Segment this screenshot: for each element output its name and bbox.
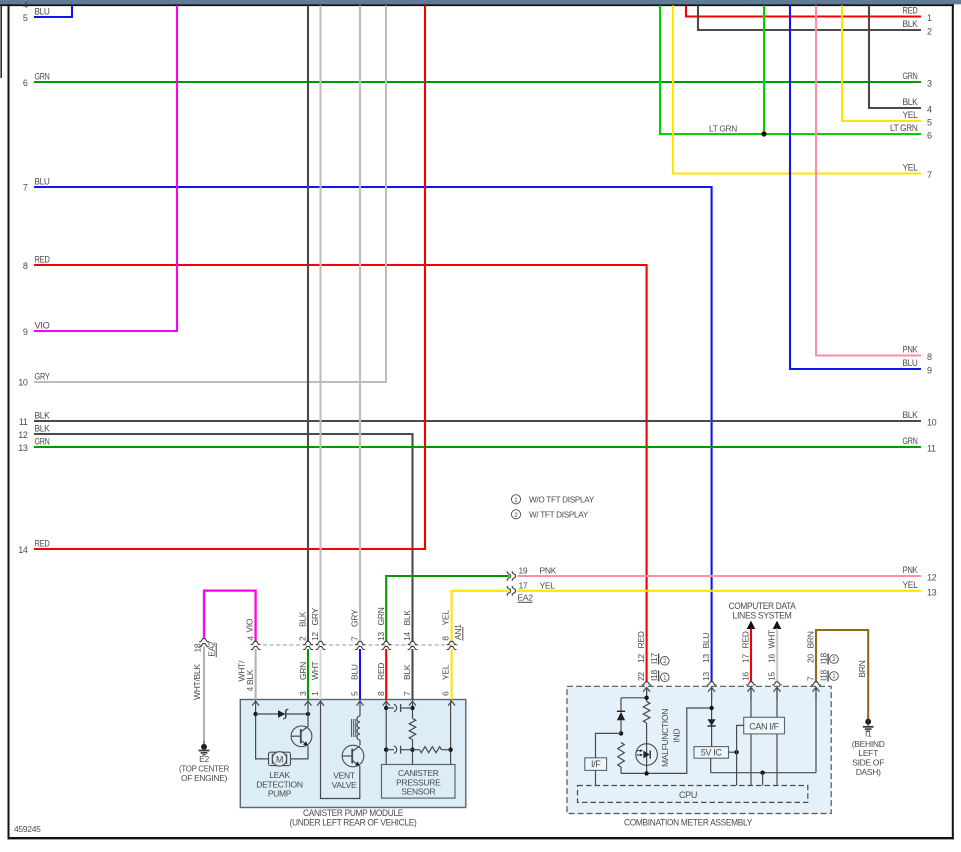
junction MIL top <box>644 696 648 700</box>
svg-text:IND: IND <box>672 729 682 743</box>
resistor meter left <box>618 743 625 768</box>
svg-text:GRN: GRN <box>35 72 50 82</box>
meter entry connector at x=751 <box>746 682 756 685</box>
wire YEL below AN1-8 to module pin 6 <box>451 649 453 700</box>
svg-text:RED: RED <box>376 663 386 680</box>
module pin 3 arrow <box>305 701 312 705</box>
connector symbol at x=360 <box>355 641 365 649</box>
svg-text:GRY: GRY <box>35 372 50 382</box>
wire GRY vertical to connector 12 <box>319 6 321 642</box>
svg-text:BLK: BLK <box>903 410 918 420</box>
wire BLK 12 to connector 14 <box>34 434 413 642</box>
svg-text:PUMP: PUMP <box>268 788 292 798</box>
wire RED 1 right <box>686 6 921 17</box>
legend w/o TFT <box>511 495 520 504</box>
svg-text:BLK: BLK <box>35 424 50 434</box>
svg-text:BLU: BLU <box>35 7 50 17</box>
svg-text:GRN: GRN <box>903 436 918 446</box>
svg-text:WHT/BLK: WHT/BLK <box>192 664 202 700</box>
combination meter assembly box <box>567 686 831 813</box>
svg-text:6: 6 <box>927 131 932 141</box>
svg-text:RED: RED <box>903 6 919 16</box>
svg-text:14: 14 <box>18 545 28 555</box>
svg-text:1: 1 <box>310 691 320 696</box>
svg-text:I1: I1 <box>865 729 872 739</box>
pressure sensor network <box>385 700 387 765</box>
connector symbol at x=320.5 <box>316 641 326 649</box>
wire GRN to EA2 pin 19 <box>386 576 509 642</box>
svg-text:3: 3 <box>927 79 932 89</box>
module pin 5 arrow <box>357 701 364 705</box>
svg-text:LT GRN: LT GRN <box>890 123 918 133</box>
svg-text:BLK: BLK <box>402 610 412 626</box>
svg-text:17: 17 <box>519 580 528 590</box>
bottom border line <box>8 837 954 839</box>
svg-text:VIO: VIO <box>35 321 50 331</box>
meter bottom rail <box>621 708 712 773</box>
wire VIO 9 <box>34 6 177 332</box>
module pin 8 arrow <box>383 701 390 705</box>
svg-text:DASH): DASH) <box>856 767 881 777</box>
wire YEL 13 right <box>518 590 922 592</box>
meter entry connector at x=646.6 <box>642 682 652 685</box>
wire LT GRN 6 right <box>660 6 921 135</box>
svg-text:BRN: BRN <box>857 660 867 677</box>
svg-text:BLK: BLK <box>402 664 412 680</box>
wire WHT below conn 12 to module pin 1 <box>319 649 321 700</box>
svg-text:W/O TFT DISPLAY: W/O TFT DISPLAY <box>529 495 595 505</box>
wire BLU below conn 7 to module pin 5 <box>359 649 361 700</box>
svg-text:8: 8 <box>376 691 386 696</box>
wire YEL 7 right <box>673 6 921 174</box>
svg-text:BLK: BLK <box>903 19 918 29</box>
header bar <box>0 0 961 4</box>
zener diode leak pump <box>256 713 278 715</box>
svg-text:BLK: BLK <box>245 669 255 685</box>
svg-text:BLK: BLK <box>35 411 50 421</box>
meter entry connector at x=777 <box>772 682 782 685</box>
svg-text:8: 8 <box>23 261 28 271</box>
CAN I/F legs <box>750 688 752 717</box>
svg-text:BLU: BLU <box>35 177 50 187</box>
svg-text:I18: I18 <box>819 653 829 664</box>
resistor MIL <box>643 702 650 724</box>
svg-text:LEAK: LEAK <box>269 770 290 780</box>
svg-text:1: 1 <box>927 13 932 23</box>
wire PNK 12 right <box>518 575 922 577</box>
svg-text:12: 12 <box>636 654 646 663</box>
wire YEL 5 right <box>842 6 921 122</box>
wire BRN to I1 ground <box>816 630 868 719</box>
svg-text:PNK: PNK <box>903 565 918 575</box>
connector EA2 pin 19 <box>507 571 515 581</box>
module internal: pin4 rail <box>256 700 269 759</box>
svg-text:4: 4 <box>927 105 932 115</box>
wire BLK vertical to connector 2 <box>307 6 309 642</box>
resistor sensor horizontal <box>413 749 420 751</box>
svg-text:1: 1 <box>514 497 518 504</box>
svg-text:GRY: GRY <box>310 608 320 626</box>
svg-text:RED: RED <box>636 631 646 648</box>
svg-text:YEL: YEL <box>540 580 556 590</box>
svg-text:COMBINATION METER ASSEMBLY: COMBINATION METER ASSEMBLY <box>624 817 753 828</box>
svg-text:SIDE OF: SIDE OF <box>852 758 884 768</box>
svg-text:8: 8 <box>441 636 451 641</box>
meter entry connector at x=816 <box>811 682 821 685</box>
capacitor C1 sensor <box>386 707 394 709</box>
svg-text:I17: I17 <box>649 653 659 664</box>
svg-text:12: 12 <box>310 632 320 641</box>
svg-text:6: 6 <box>441 691 451 696</box>
vent valve loop wire <box>321 700 360 799</box>
svg-text:16: 16 <box>767 654 777 663</box>
svg-text:15: 15 <box>767 672 777 681</box>
svg-text:YEL: YEL <box>903 110 918 120</box>
svg-text:1: 1 <box>663 675 667 682</box>
ground E2 dot <box>201 744 207 750</box>
svg-text:5: 5 <box>350 691 360 696</box>
svg-text:GRN: GRN <box>903 71 918 81</box>
svg-text:7: 7 <box>350 636 360 641</box>
svg-text:RED: RED <box>35 255 51 265</box>
svg-text:(TOP CENTER: (TOP CENTER <box>179 763 229 773</box>
wire RED 14 <box>34 6 425 550</box>
svg-text:11: 11 <box>19 417 28 427</box>
svg-text:1: 1 <box>832 673 836 680</box>
I/F box <box>585 758 607 771</box>
svg-text:CAN I/F: CAN I/F <box>749 722 779 732</box>
svg-text:YEL: YEL <box>903 580 918 590</box>
svg-text:WHT: WHT <box>310 661 320 680</box>
left border line <box>8 4 10 839</box>
BLU branch diode to 5V IC <box>711 688 713 747</box>
svg-text:7: 7 <box>23 183 28 193</box>
svg-text:9: 9 <box>927 366 932 376</box>
svg-text:13: 13 <box>376 632 386 641</box>
canister pump module box <box>240 700 465 808</box>
svg-text:EA2: EA2 <box>518 593 534 603</box>
CAN I/F box <box>744 717 785 734</box>
connector symbol at x=412.5 <box>408 641 418 649</box>
meter entry connector at x=711.6 <box>707 682 717 685</box>
svg-text:EA2: EA2 <box>207 641 217 657</box>
svg-text:7: 7 <box>806 676 816 681</box>
junction meter left <box>619 731 623 735</box>
svg-text:10: 10 <box>927 418 937 428</box>
svg-text:22: 22 <box>636 672 646 681</box>
svg-text:PNK: PNK <box>903 345 918 355</box>
connector symbol at x=308 <box>303 641 313 649</box>
svg-text:LT GRN: LT GRN <box>709 123 737 133</box>
wire GRY vertical to connector 7 <box>359 6 361 642</box>
svg-text:VIO: VIO <box>245 618 255 632</box>
svg-text:GRN: GRN <box>35 437 50 447</box>
5V IC box <box>694 747 729 759</box>
svg-text:COMPUTER DATA: COMPUTER DATA <box>729 601 796 611</box>
svg-text:7: 7 <box>927 170 932 180</box>
wire GRY 10 <box>34 6 386 383</box>
svg-text:9: 9 <box>23 327 28 337</box>
svg-text:BLU: BLU <box>903 358 918 368</box>
svg-text:GRY: GRY <box>350 609 360 627</box>
svg-text:CPU: CPU <box>679 790 697 800</box>
svg-text:RED: RED <box>741 631 751 648</box>
svg-text:BLU: BLU <box>350 664 360 680</box>
meter internal wires <box>646 688 648 702</box>
svg-text:VALVE: VALVE <box>332 780 357 790</box>
svg-text:BLU: BLU <box>701 633 711 649</box>
wire GRN 6-3 across <box>34 81 921 83</box>
svg-text:BRN: BRN <box>806 631 816 648</box>
connector EA2 pin 17 <box>507 586 515 596</box>
svg-text:OF ENGINE): OF ENGINE) <box>181 773 227 783</box>
diode D2 meter <box>708 719 716 726</box>
svg-text:13: 13 <box>927 587 937 597</box>
svg-text:19: 19 <box>519 566 528 576</box>
svg-text:11: 11 <box>927 444 936 454</box>
svg-text:YEL: YEL <box>441 664 451 680</box>
svg-text:5: 5 <box>927 118 932 128</box>
svg-text:13: 13 <box>18 443 28 453</box>
I/F leg <box>595 770 597 785</box>
svg-text:I/F: I/F <box>591 759 601 769</box>
svg-text:PNK: PNK <box>540 566 557 576</box>
svg-text:17: 17 <box>741 654 751 663</box>
svg-text:10: 10 <box>18 378 28 388</box>
diode D1 meter <box>617 712 625 721</box>
svg-text:YEL: YEL <box>440 610 450 626</box>
svg-text:2: 2 <box>514 512 518 519</box>
svg-text:M: M <box>276 754 283 764</box>
svg-text:18: 18 <box>193 643 203 652</box>
svg-text:12: 12 <box>927 573 937 583</box>
connector symbol EA2-18 <box>199 639 209 647</box>
connector dashed line <box>263 644 458 646</box>
top border line <box>0 4 954 6</box>
wire YEL to EA2 pin 17 <box>452 591 509 642</box>
svg-text:I18: I18 <box>819 670 829 681</box>
svg-text:4: 4 <box>23 0 28 10</box>
wire GRN below conn 2 to module pin 3 <box>307 649 309 700</box>
svg-text:2: 2 <box>663 658 667 665</box>
wire BLK 11-10 across <box>34 420 921 422</box>
canister pressure sensor box <box>382 765 456 799</box>
wire WHT/BLK below EA2-18 to ground <box>203 647 205 742</box>
wire LT GRN branch vertical <box>763 6 765 135</box>
solenoid coil vent valve <box>359 700 361 716</box>
wire BLK 4 right <box>869 6 921 109</box>
ground I1 symbol <box>867 718 869 726</box>
wire BLU 9 right <box>790 6 921 370</box>
svg-text:3: 3 <box>298 691 308 696</box>
wire RED 8 to meter <box>34 265 647 682</box>
svg-text:20: 20 <box>806 654 816 663</box>
transistor Q2 vent valve <box>342 745 364 767</box>
wire PNK 8 right <box>816 6 921 356</box>
wire BLK 2 right <box>698 6 921 31</box>
junction LT GRN <box>761 131 766 136</box>
connector symbol at x=386.2 <box>381 641 391 649</box>
svg-text:2: 2 <box>298 636 308 641</box>
svg-text:2: 2 <box>927 27 932 37</box>
svg-text:5: 5 <box>23 13 28 23</box>
svg-text:MALFUNCTION: MALFUNCTION <box>660 709 670 767</box>
arrow WHT data line <box>773 621 782 629</box>
wire VIO jumper EA2-18 to conn 4 <box>204 591 256 642</box>
wire BLU 5 left <box>34 6 72 18</box>
svg-text:13: 13 <box>701 654 711 663</box>
svg-text:6: 6 <box>23 78 28 88</box>
module pin 4 arrow <box>252 701 259 705</box>
wire GRN 13-11 across <box>34 446 921 448</box>
svg-text:GRN: GRN <box>298 662 308 680</box>
wire RED below conn 13 to module pin 8 <box>385 649 387 700</box>
svg-text:2: 2 <box>832 656 836 663</box>
resistor sensor vertical <box>409 719 416 740</box>
svg-text:YEL: YEL <box>903 163 918 173</box>
connector symbol at x=255.6 <box>251 641 261 649</box>
svg-text:13: 13 <box>701 672 711 681</box>
wire BLK below conn 14 to module pin 7 <box>411 649 413 700</box>
capacitor C2 sensor <box>386 749 394 751</box>
svg-text:459245: 459245 <box>14 824 41 834</box>
svg-text:5V IC: 5V IC <box>701 748 723 758</box>
svg-text:SENSOR: SENSOR <box>401 786 435 796</box>
wire BLU 7 to meter <box>34 187 712 682</box>
svg-text:8: 8 <box>927 352 932 362</box>
right border line <box>952 4 954 839</box>
svg-text:RED: RED <box>35 539 51 549</box>
svg-text:12: 12 <box>18 430 28 440</box>
wire WHT/BLK below conn 4 to module pin 4 <box>255 649 257 700</box>
svg-text:BLK: BLK <box>903 97 918 107</box>
svg-text:AN1: AN1 <box>453 624 463 640</box>
svg-text:LEFT: LEFT <box>858 748 878 758</box>
CPU box <box>578 786 808 803</box>
svg-text:7: 7 <box>402 691 412 696</box>
legend w/ TFT <box>511 510 520 519</box>
svg-text:W/ TFT DISPLAY: W/ TFT DISPLAY <box>529 510 589 520</box>
5V IC connections <box>729 751 737 753</box>
svg-text:BLK: BLK <box>298 611 308 627</box>
module pin 6 arrow <box>448 701 455 705</box>
svg-text:CANISTER: CANISTER <box>398 768 439 778</box>
svg-text:14: 14 <box>402 632 412 641</box>
module pin 1 arrow <box>317 701 324 705</box>
module pin 7 arrow <box>409 701 416 705</box>
MIL lamp circle <box>636 744 658 766</box>
page edge remnant top-left <box>0 5 2 78</box>
ground I1 dot <box>865 719 871 725</box>
svg-text:4: 4 <box>245 636 255 641</box>
motor M leak pump <box>269 752 291 765</box>
svg-text:4: 4 <box>245 687 255 692</box>
svg-text:VENT: VENT <box>333 770 355 780</box>
svg-text:I18: I18 <box>649 670 659 681</box>
svg-text:GRN: GRN <box>376 607 386 625</box>
connector symbol at x=451.6 <box>447 641 457 649</box>
svg-text:(UNDER LEFT REAR OF VEHICLE): (UNDER LEFT REAR OF VEHICLE) <box>290 818 417 829</box>
svg-text:LINES SYSTEM: LINES SYSTEM <box>733 611 792 621</box>
arrow RED data line <box>747 621 756 629</box>
ground E2 symbol <box>203 741 205 750</box>
svg-text:16: 16 <box>741 672 751 681</box>
transistor Q1 leak pump <box>307 700 309 727</box>
svg-text:WHT: WHT <box>767 630 777 649</box>
